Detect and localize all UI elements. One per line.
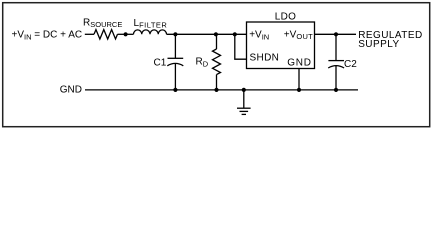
ground xyxy=(243,90,245,108)
svg-text:C2: C2 xyxy=(344,59,357,70)
svg-text:GND: GND xyxy=(287,57,311,68)
wire input to resistor xyxy=(85,33,94,35)
wire resistor to inductor xyxy=(118,33,134,35)
node dot xyxy=(124,32,128,36)
svg-text:SUPPLY: SUPPLY xyxy=(358,39,399,50)
node dot RD top xyxy=(214,32,218,36)
svg-text:C1: C1 xyxy=(154,57,167,68)
inductor LFILTER xyxy=(134,30,167,34)
node dot LDO GND bottom xyxy=(297,88,301,92)
wire inductor to LDO xyxy=(167,33,247,35)
node dot C2 bottom xyxy=(334,88,338,92)
capacitor C1 xyxy=(174,34,176,58)
node dot C1 top xyxy=(173,32,177,36)
svg-text:SHDN: SHDN xyxy=(250,53,280,64)
resistor RSOURCE xyxy=(94,30,118,39)
node dot RD bottom xyxy=(214,88,218,92)
svg-text:+VIN = DC + AC: +VIN = DC + AC xyxy=(12,30,83,42)
wire LDO output xyxy=(315,33,357,35)
capacitor C2 xyxy=(335,34,337,60)
svg-text:LFILTER: LFILTER xyxy=(134,18,168,30)
node dot ground stem xyxy=(242,88,246,92)
op LDO box xyxy=(247,22,315,69)
svg-text:GND: GND xyxy=(60,85,82,96)
resistor RD xyxy=(216,34,218,49)
wire LDO GND pin to rail xyxy=(298,69,300,90)
node dot C2 top xyxy=(334,32,338,36)
SHDN branch wire xyxy=(235,34,247,59)
wire GND rail xyxy=(85,89,358,91)
svg-text:RSOURCE: RSOURCE xyxy=(83,18,122,30)
node dot C1 bottom xyxy=(173,88,177,92)
node dot SHDN branch xyxy=(233,32,237,36)
svg-text:LDO: LDO xyxy=(275,12,296,23)
